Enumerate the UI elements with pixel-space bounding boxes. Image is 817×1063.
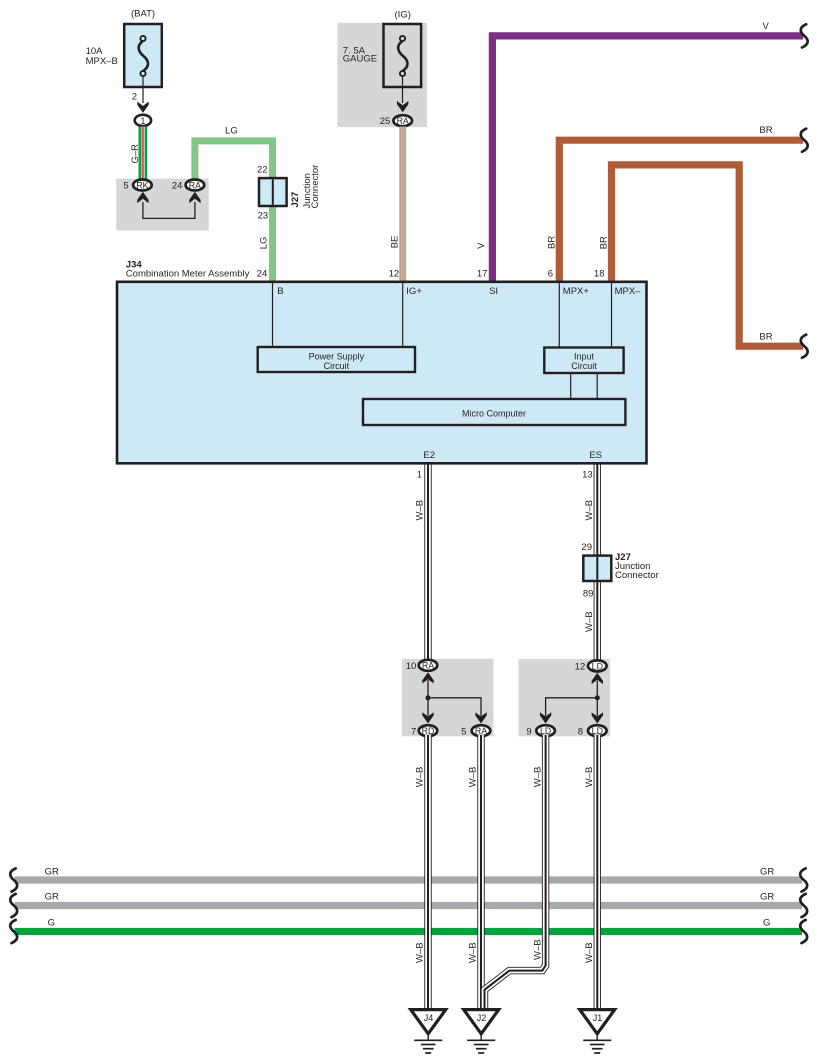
svg-text:RA: RA <box>475 726 487 736</box>
junction dot <box>595 695 600 700</box>
svg-text:1: 1 <box>140 116 145 126</box>
svg-text:SI: SI <box>489 286 498 297</box>
connector 10 RA oval <box>419 660 438 671</box>
micro computer block <box>363 399 625 425</box>
svg-text:IG+: IG+ <box>406 286 422 297</box>
svg-text:GR: GR <box>45 892 59 903</box>
svg-text:BR: BR <box>759 125 772 136</box>
arrow down into 7 RD <box>422 712 433 723</box>
arrow down into 8 LD <box>592 712 603 723</box>
internal wire B to power supply circuit <box>272 283 274 347</box>
ground J2 <box>464 1010 499 1053</box>
junction connector J27 (upper) box <box>259 178 287 206</box>
bus wire GR upper <box>15 876 803 883</box>
svg-text:29: 29 <box>581 542 592 553</box>
bracket wire linking RK and RA arrows <box>143 202 195 218</box>
wire BR from right edge to meter pin 6 MPX+ <box>559 140 803 281</box>
internal wires input circuit to micro computer <box>570 373 572 399</box>
wire W-B from 8 LD to ground J1 <box>594 735 601 1011</box>
svg-text:2: 2 <box>132 92 137 103</box>
connector 8 LD oval <box>588 725 607 736</box>
svg-text:Combination Meter Assembly: Combination Meter Assembly <box>126 268 250 279</box>
internal wire IG+ to power supply circuit <box>402 283 404 347</box>
svg-text:LD: LD <box>592 726 603 736</box>
svg-text:G: G <box>763 917 770 928</box>
svg-text:W–B: W–B <box>584 611 595 632</box>
fuse 10A MPX-B (BAT) box <box>124 24 162 87</box>
svg-text:MPX–: MPX– <box>615 286 642 297</box>
squiggle G left <box>10 920 17 943</box>
svg-text:23: 23 <box>258 211 269 222</box>
svg-text:W–B: W–B <box>532 939 543 960</box>
svg-text:BR: BR <box>546 236 557 249</box>
svg-text:7: 7 <box>411 726 416 737</box>
svg-text:6: 6 <box>548 268 553 279</box>
svg-text:GR: GR <box>760 892 774 903</box>
squiggle G right <box>800 920 807 943</box>
svg-text:W–B: W–B <box>468 767 479 788</box>
gray connector block right (12 LD / 9 LD / 8 LD) <box>519 659 611 736</box>
svg-text:10: 10 <box>406 661 417 672</box>
wire W-B from 7 RD to ground J4 <box>424 735 431 1011</box>
svg-text:W–B: W–B <box>415 942 426 963</box>
svg-text:J4: J4 <box>424 1013 434 1023</box>
svg-text:8: 8 <box>578 726 583 737</box>
bus wire G <box>15 928 803 935</box>
connector 9 LD oval <box>536 725 555 736</box>
svg-text:MPX–B: MPX–B <box>86 56 118 67</box>
svg-text:B: B <box>277 286 283 297</box>
svg-text:GR: GR <box>760 866 774 877</box>
svg-text:25: 25 <box>380 116 391 127</box>
svg-text:18: 18 <box>594 268 605 279</box>
svg-text:E2: E2 <box>423 450 435 461</box>
wire fuse lead down <box>142 76 144 103</box>
svg-text:J27: J27 <box>290 192 301 208</box>
wire LG from 24 RA to junction connector J27 to meter pin 24 <box>195 141 273 282</box>
svg-text:W–B: W–B <box>584 500 595 521</box>
connector RA oval (IG) <box>393 115 412 126</box>
squiggle GR upper right <box>800 868 807 891</box>
wire W-B from 5 RA to ground J2 <box>477 735 484 1011</box>
svg-text:24: 24 <box>172 181 183 192</box>
svg-text:G: G <box>48 917 55 928</box>
svg-text:RA: RA <box>189 180 201 190</box>
svg-text:BR: BR <box>598 236 609 249</box>
svg-text:W–B: W–B <box>415 500 426 521</box>
svg-text:LG: LG <box>258 237 269 250</box>
wire BR from meter pin 18 MPX- loop to right edge <box>612 165 804 346</box>
wire V (violet) from right edge to meter pin 17 <box>492 36 803 282</box>
arrow up into 12 LD <box>592 673 603 684</box>
wire break squiggle BR lower right end <box>801 335 808 358</box>
svg-text:BE: BE <box>390 236 401 249</box>
wire fuse lead down <box>402 76 404 103</box>
connector RK oval <box>133 180 152 191</box>
svg-text:(BAT): (BAT) <box>131 9 155 20</box>
svg-text:W–B: W–B <box>532 767 543 788</box>
squiggle GR upper left <box>10 868 17 891</box>
connector 1 ellipse <box>135 115 151 126</box>
wire W-B meter ES pin 13 down through J27 to connector 12 LD <box>594 463 601 662</box>
connector 12 LD oval <box>588 660 607 671</box>
svg-text:5: 5 <box>461 726 466 737</box>
svg-text:V: V <box>476 242 487 249</box>
svg-text:24: 24 <box>257 268 268 279</box>
connector 5 RA oval <box>472 725 491 736</box>
junction connector J27 (lower) box <box>583 556 611 581</box>
svg-text:Circuit: Circuit <box>571 361 597 371</box>
wire W-B from 9 LD jog to ground J2 <box>485 735 546 1011</box>
svg-text:1: 1 <box>417 470 422 481</box>
internal wire MPX- to input circuit <box>611 283 613 348</box>
svg-text:9: 9 <box>526 726 531 737</box>
junction dot <box>426 695 431 700</box>
svg-text:LD: LD <box>540 726 551 736</box>
fuse 7.5A GAUGE (IG) box <box>384 24 422 87</box>
svg-text:J1: J1 <box>593 1013 603 1023</box>
bus wire GR lower <box>15 902 803 909</box>
svg-text:MPX+: MPX+ <box>563 286 590 297</box>
svg-text:LG: LG <box>225 126 238 137</box>
arrow up into RK <box>137 192 148 203</box>
wire W-B meter E2 pin 1 down to connector 10 RA <box>424 463 431 661</box>
svg-text:J2: J2 <box>477 1013 487 1023</box>
svg-text:(IG): (IG) <box>395 10 411 21</box>
svg-text:W–B: W–B <box>584 942 595 963</box>
input circuit block <box>544 348 623 374</box>
svg-text:GR: GR <box>45 866 59 877</box>
gray block behind IG fuse <box>337 23 427 127</box>
wire G-R from connector 1 to pin 5 RK <box>139 127 148 180</box>
svg-text:Connector: Connector <box>310 165 321 209</box>
svg-text:5: 5 <box>123 181 128 192</box>
svg-text:W–B: W–B <box>415 767 426 788</box>
wire break squiggle BR right end <box>801 129 808 152</box>
connector 7 RD oval <box>419 725 438 736</box>
svg-text:12: 12 <box>389 268 400 279</box>
wire BE from 25 RA to meter pin 12 <box>399 127 406 282</box>
svg-text:RA: RA <box>397 116 409 126</box>
ground J4 <box>411 1010 446 1053</box>
svg-text:13: 13 <box>582 469 593 480</box>
svg-text:89: 89 <box>583 589 594 600</box>
gray connector block behind RK/RA (meter connector detail) <box>116 179 209 231</box>
svg-text:RA: RA <box>422 661 434 671</box>
svg-text:Micro Computer: Micro Computer <box>462 409 526 419</box>
fuse element symbol <box>398 36 407 76</box>
arrow into connector 25 RA <box>397 101 408 112</box>
svg-text:V: V <box>763 21 770 32</box>
svg-text:Circuit: Circuit <box>324 361 350 371</box>
arrow up into RA <box>189 192 200 203</box>
svg-text:RD: RD <box>422 726 435 736</box>
svg-text:ES: ES <box>589 450 602 461</box>
power supply circuit block <box>258 347 415 372</box>
internal wire MPX+ to input circuit <box>558 283 560 348</box>
svg-text:W–B: W–B <box>468 942 479 963</box>
svg-text:GAUGE: GAUGE <box>343 54 377 65</box>
arrow into connector 1 <box>137 102 148 113</box>
svg-text:22: 22 <box>257 165 268 176</box>
wire break squiggle V right end <box>801 24 808 47</box>
connector RA oval <box>186 180 205 191</box>
gray connector block left (10 RA / 7 RD / 5 RA) <box>402 659 494 737</box>
svg-text:17: 17 <box>477 268 488 279</box>
svg-text:Connector: Connector <box>615 570 659 581</box>
svg-text:12: 12 <box>575 662 586 673</box>
arrow down into 9 LD <box>540 712 551 723</box>
combination meter assembly J34 box <box>117 282 647 464</box>
svg-text:LD: LD <box>592 661 603 671</box>
arrow up into 10 RA <box>422 672 433 683</box>
svg-text:RK: RK <box>136 180 148 190</box>
ground J1 <box>580 1010 615 1053</box>
squiggle GR lower right <box>800 894 807 917</box>
svg-text:W–B: W–B <box>584 767 595 788</box>
svg-text:BR: BR <box>759 332 772 343</box>
arrow down into 5 RA <box>475 712 486 723</box>
squiggle GR lower left <box>10 894 17 917</box>
fuse element symbol <box>139 36 148 76</box>
svg-text:G–R: G–R <box>130 144 141 164</box>
branch wires inside left block <box>428 680 481 716</box>
branch wires inside right block <box>546 681 598 716</box>
